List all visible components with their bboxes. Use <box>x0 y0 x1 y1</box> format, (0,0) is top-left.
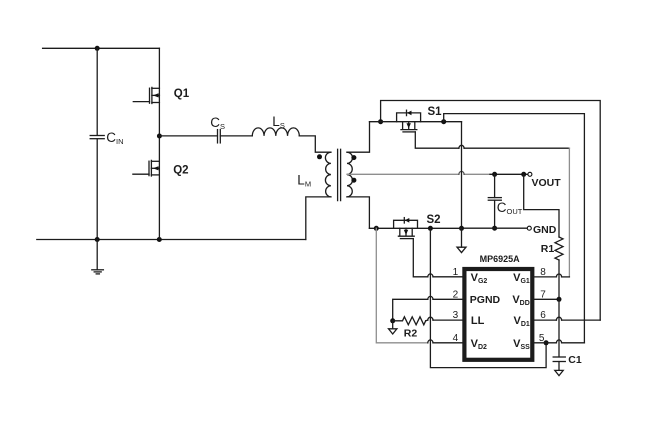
wire hop pin4 over VSS return vertical <box>428 340 433 343</box>
node junction CIN top <box>95 46 100 51</box>
svg-text:GND: GND <box>533 224 557 236</box>
svg-text:Q1: Q1 <box>174 88 190 100</box>
svg-text:MP6925A: MP6925A <box>480 254 521 264</box>
node S2 source junction right <box>459 226 464 231</box>
wire GND net from S2 node to GND terminal <box>462 227 528 229</box>
svg-text:C1: C1 <box>568 354 582 366</box>
resistor R1 <box>555 237 563 260</box>
node R2 left junction <box>390 318 395 323</box>
capacitor CIN <box>90 136 104 139</box>
wire top input rail <box>43 47 160 49</box>
ground triangle below S2 <box>457 228 466 252</box>
wire VDD to C1 <box>558 299 560 357</box>
transistor Q1 <box>133 87 159 103</box>
wire secondary top terminal to S1 node <box>347 122 370 153</box>
wire center tap gray segment with hop over S1S2 vertical <box>347 173 490 175</box>
svg-text:LL: LL <box>471 315 485 327</box>
wire hop pin8 over VDD vertical <box>556 274 561 277</box>
wire S1 source to VSS rail <box>444 114 585 343</box>
terminal VOUT open circle <box>528 172 532 176</box>
wire S1 source down to S2 source <box>461 122 463 229</box>
resistor R2 <box>393 317 426 325</box>
node primary polarity dot <box>317 154 322 159</box>
node S1 drain junction <box>378 119 383 124</box>
svg-text:S2: S2 <box>427 214 441 226</box>
node pin7 VDD junction <box>557 297 562 302</box>
wire secondary bottom terminal to S2 node <box>347 197 369 228</box>
wire pin4 stub <box>433 342 464 344</box>
ground earth symbol <box>92 240 104 274</box>
node junction Q2 source rail <box>157 237 162 242</box>
wire hop pin3 over VSS return vertical <box>428 317 433 320</box>
wire CIN top lead <box>96 48 98 135</box>
svg-text:Q2: Q2 <box>173 164 188 176</box>
svg-text:PGND: PGND <box>470 294 501 306</box>
capacitor CS <box>218 130 221 143</box>
wire S2 gate lead to pin1 VG2 with hop <box>413 239 463 277</box>
node COUT bottom junction <box>492 226 497 231</box>
svg-text:R2: R2 <box>404 328 418 340</box>
ground triangle below C1 <box>555 362 563 376</box>
wire S2 main horizontal <box>369 227 461 229</box>
transformer secondary winding <box>347 152 352 197</box>
node pin5 junction <box>544 340 549 345</box>
transistor S1 <box>397 110 421 132</box>
node secondary top polarity dot <box>351 155 356 160</box>
wire bottom input rail <box>37 239 306 241</box>
wire S1 gate lead to VG1 with hop <box>415 132 569 148</box>
wire CIN bottom lead <box>96 139 98 240</box>
svg-text:3: 3 <box>453 310 459 321</box>
svg-text:2: 2 <box>453 289 459 300</box>
wire pin6 stub to VD1 riser with hop <box>534 319 600 321</box>
node midpoint of half bridge <box>157 134 162 139</box>
wire midpoint to CS <box>159 135 217 137</box>
svg-text:VOUT: VOUT <box>532 177 562 189</box>
capacitor C1 <box>553 357 565 362</box>
wire hop center tap over vertical <box>459 171 464 174</box>
wire center tap to VOUT <box>490 173 528 175</box>
transistor Q2 <box>133 160 159 176</box>
wire pin5 stub to VSS riser with hop <box>534 342 585 344</box>
terminal GND open circle <box>527 226 531 230</box>
wire half-bridge vertical Q1 drain to Q2 source <box>158 48 160 239</box>
node S2 source junction left <box>428 226 433 231</box>
capacitor COUT <box>488 174 501 228</box>
wire pin3 LL stub with hop <box>426 319 464 322</box>
ground triangle below R2 <box>389 321 397 334</box>
wire hop pin2 over VSS return vertical <box>428 296 433 299</box>
wire pin7 stub <box>534 298 559 300</box>
wire S2 drain to pin4 VD2 gray <box>376 228 428 342</box>
wire LS to transformer primary top <box>299 136 331 152</box>
wire VSS return under IC <box>430 228 546 367</box>
inductor LS <box>252 128 299 136</box>
transformer core <box>338 149 341 200</box>
wire pin8 stub with hop to VG1 riser <box>534 276 570 278</box>
node secondary lower polarity dot <box>351 178 356 183</box>
wire CS to LS <box>220 135 252 137</box>
wire hop pin1 over VSS return vertical <box>428 274 433 277</box>
wire VOUT to R1 feed <box>524 174 559 237</box>
node COUT top junction <box>492 172 497 177</box>
node VOUT junction <box>521 172 526 177</box>
svg-text:8: 8 <box>540 267 546 278</box>
svg-text:4: 4 <box>453 333 459 344</box>
node S2 drain junction <box>374 226 379 231</box>
transformer primary winding LM <box>325 152 331 197</box>
wire hop pin6 over VDD vertical <box>556 317 561 320</box>
wire S1 top node riser and top rail to VD1 <box>381 101 601 321</box>
wire VG1 vertical gray <box>568 148 570 277</box>
node junction ground rail <box>95 237 100 242</box>
svg-text:R1: R1 <box>541 243 555 255</box>
svg-text:S1: S1 <box>428 106 443 118</box>
wire hop pin5 over VDD vertical <box>556 340 561 343</box>
wire hop gate over S1S2 vertical <box>459 145 464 148</box>
wire S1 main horizontal <box>370 121 462 123</box>
node S1 source junction <box>441 119 446 124</box>
IC U1 MP6925A box <box>464 269 532 360</box>
transistor S2 <box>394 218 418 239</box>
svg-text:1: 1 <box>453 267 459 278</box>
wire pin2 PGND to R2 node with hop <box>393 299 464 321</box>
wire R1 to pin7 VDD <box>558 260 560 299</box>
wire primary bottom to ground rail <box>306 197 331 240</box>
